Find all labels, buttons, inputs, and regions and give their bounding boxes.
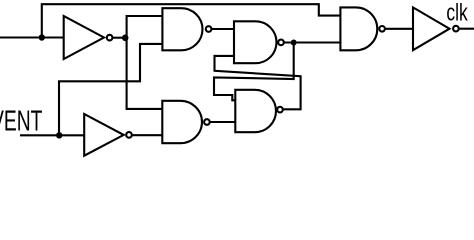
svg-text:clk: clk (446, 0, 468, 26)
svg-text:EVENT: EVENT (0, 106, 42, 138)
